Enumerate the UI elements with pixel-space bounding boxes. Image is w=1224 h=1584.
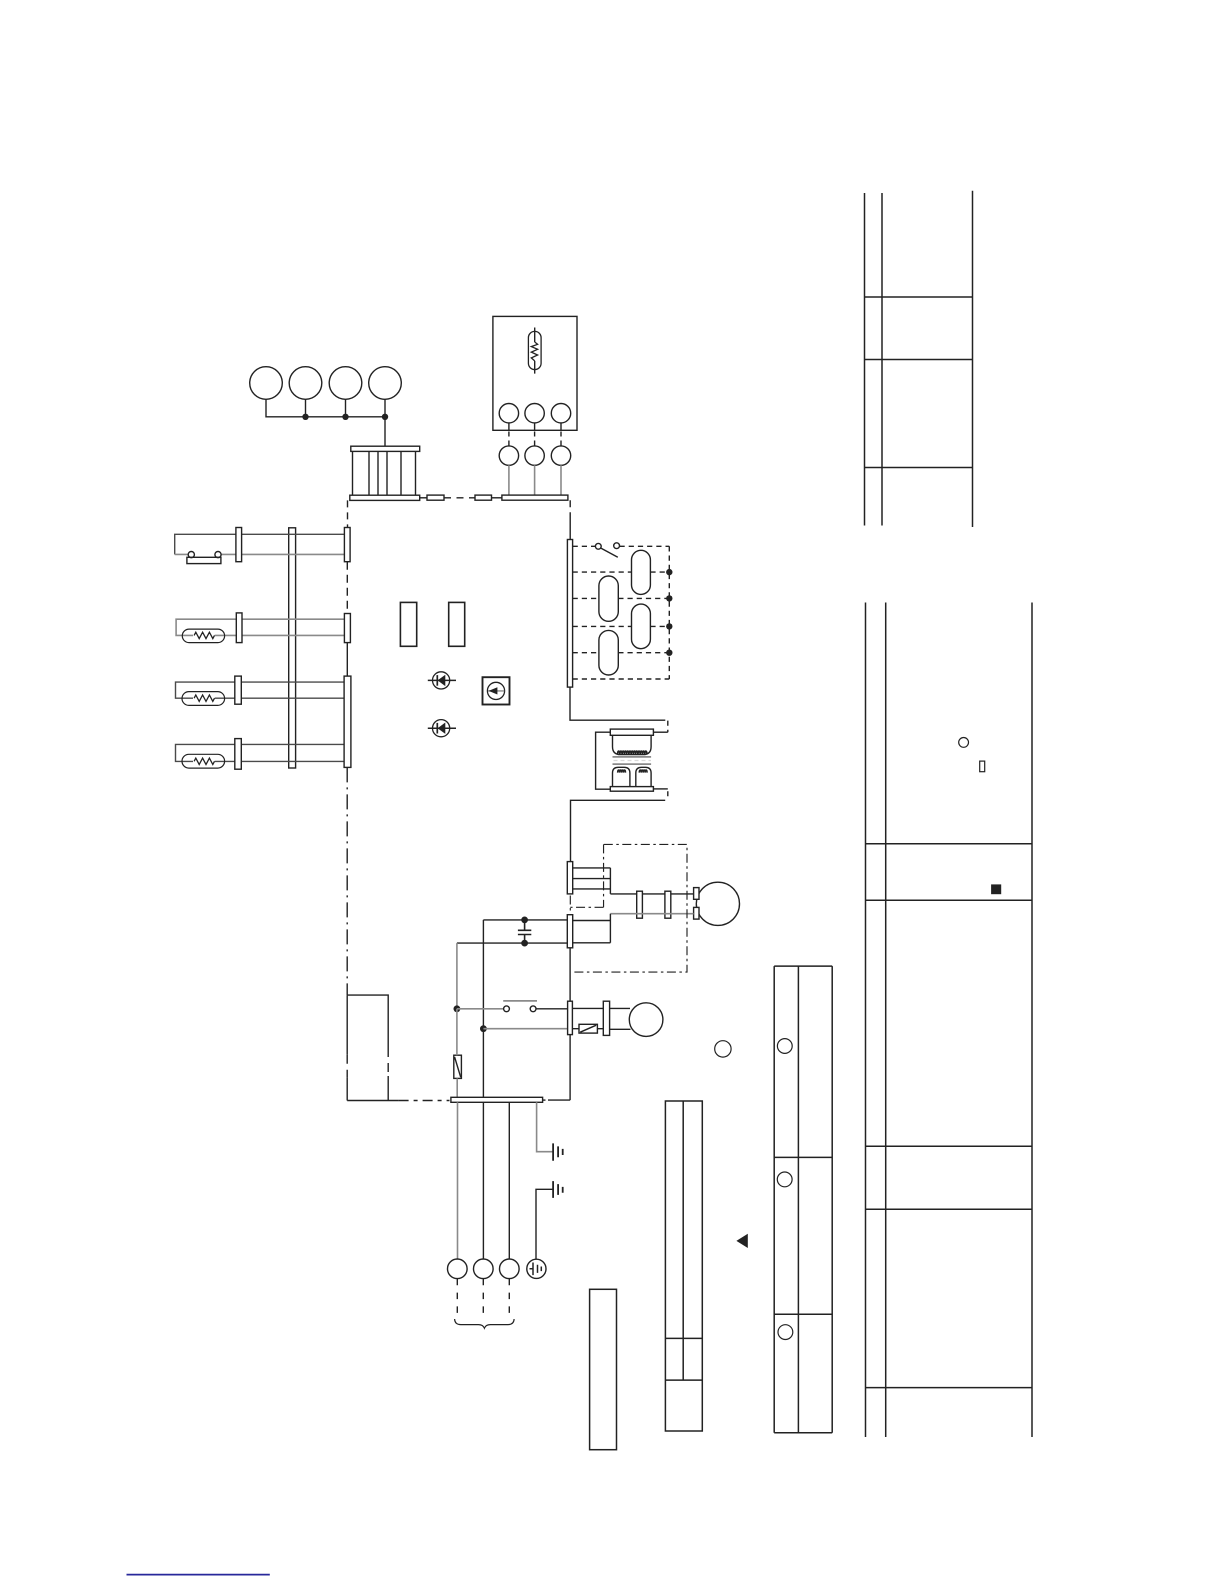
table C divider — [665, 1101, 702, 1380]
wire — [492, 497, 502, 499]
wire — [347, 1100, 398, 1102]
branch 4 heater element zigzag — [194, 758, 214, 764]
table C outline — [665, 1101, 702, 1431]
connector lug — [427, 495, 444, 500]
chassis outline box dashed edges — [347, 1048, 388, 1077]
node junction dot — [382, 414, 388, 420]
node junction dot — [302, 414, 308, 420]
standalone small circle — [715, 1041, 731, 1057]
wire gray pin leads — [509, 465, 561, 495]
inline connector CN-B — [637, 891, 643, 918]
wire main vertical — [548, 948, 570, 1100]
branch 4 heater circuit wires — [176, 744, 348, 761]
degauss transformer T2 top bar — [610, 729, 653, 735]
T2 secondary core left — [613, 767, 630, 786]
relay switch blade — [600, 548, 618, 557]
transformer T1 top terminal bar — [351, 446, 420, 451]
socket pin 3 — [551, 446, 570, 465]
terminal bar — [502, 495, 568, 500]
branch 3 connector left — [235, 676, 242, 704]
table A verticals — [865, 191, 973, 527]
connector CN-E — [568, 1001, 573, 1034]
table D outline — [774, 966, 832, 1433]
wire to ground G2 — [536, 1189, 553, 1259]
relay dashed right rail — [668, 546, 670, 679]
fuse F1 element — [528, 328, 541, 374]
wire lead 2 — [482, 1102, 484, 1259]
wire bar tick — [543, 1099, 546, 1101]
yoke connector CN-A — [567, 862, 572, 894]
relay switch terminal — [614, 543, 620, 549]
CRT pin top — [694, 888, 699, 900]
wire segment — [346, 643, 348, 677]
wire dashed lead 1 — [456, 1279, 458, 1313]
relay coil K1 — [632, 550, 651, 594]
relay contact dashed line 2 — [573, 571, 670, 573]
connector plug P3 — [329, 367, 362, 400]
chassis ground G1 — [553, 1143, 563, 1160]
node dot — [521, 940, 528, 947]
pointer triangle — [736, 1234, 747, 1248]
wire T2 bottom right — [653, 788, 667, 790]
node dot — [666, 650, 672, 656]
inline connector CN-C — [665, 891, 671, 918]
transformer T1 bottom terminal bar — [350, 495, 420, 500]
fuse box pin 2 — [525, 404, 544, 423]
branch 2 connector right — [344, 614, 350, 643]
table B filled square — [991, 884, 1001, 894]
T2 primary coil — [618, 751, 647, 754]
T2 core gap lines — [613, 757, 652, 764]
T2 secondary core right — [636, 767, 651, 786]
branch 3 heater element zigzag — [194, 695, 214, 701]
relay switch terminal — [595, 543, 601, 549]
T2 secondary coil left — [618, 770, 626, 773]
diode D2 — [428, 720, 456, 737]
bus bar connector — [289, 528, 296, 768]
connector plug P4 — [369, 367, 402, 400]
small parts rect A — [400, 602, 416, 646]
switch terminal — [530, 1006, 536, 1012]
tall rect E — [590, 1289, 617, 1449]
node dot — [480, 1025, 487, 1032]
relay coil K4 — [599, 630, 618, 675]
branch 1 thermostat contact bar — [187, 557, 221, 563]
mains pin 3 — [500, 1259, 520, 1279]
relay contact dashed line 3 — [573, 597, 670, 599]
relay contact dashed line 6 — [573, 678, 670, 680]
connector plug P1 — [250, 367, 283, 400]
table D circle 1 — [777, 1039, 792, 1054]
table B small circle — [959, 738, 969, 748]
relay coil K2 — [599, 576, 618, 621]
table B row lines — [866, 844, 1033, 1388]
branch 2 heater element R zigzag — [194, 632, 214, 638]
branch 3 heater outline — [182, 692, 225, 706]
fusible resistor FR1 — [454, 1055, 462, 1078]
wire T2 left loop — [596, 732, 611, 789]
wire dashed drop — [569, 500, 571, 518]
wire gray left drop — [456, 943, 458, 1009]
wire yoke return gray — [610, 913, 693, 915]
footer link line — [127, 1574, 270, 1576]
connector lug — [475, 495, 492, 500]
wire dash-dot drop — [346, 767, 348, 995]
wire plug bus — [266, 399, 385, 446]
motor M1 boxed — [483, 677, 510, 704]
wire yoke top — [610, 893, 693, 895]
relay terminal bar — [567, 540, 572, 688]
brace — [455, 1319, 514, 1328]
wire dash-dot — [399, 1100, 450, 1102]
wire dashed segment — [347, 500, 349, 527]
capacitor C1 — [518, 920, 531, 943]
table B small rect — [980, 761, 985, 772]
table D row lines — [774, 1157, 832, 1314]
wire lead 4 gray to ground — [537, 1102, 553, 1151]
fusible resistor FR2 — [579, 1024, 597, 1033]
yoke pin comb — [573, 868, 611, 894]
mains pin 1 — [448, 1259, 468, 1279]
wire yoke return — [573, 914, 611, 943]
wire dashed lead 3 — [508, 1279, 510, 1313]
deflection unit dash-dot boundary — [570, 844, 687, 972]
relay contact dashed line 5 — [573, 652, 670, 654]
branch 4 heater outline — [182, 754, 225, 768]
wire cap top — [483, 919, 567, 921]
socket pin 2 — [525, 446, 544, 465]
branch 1 thermostat terminal — [215, 552, 221, 558]
branch 1 connector right — [344, 528, 350, 562]
speaker/motor M2 — [629, 1003, 663, 1037]
small parts rect B — [449, 602, 465, 646]
table A row lines — [865, 297, 973, 468]
wire dashed link — [444, 497, 475, 499]
branch 1 connector left — [236, 528, 242, 562]
branch 3-4 tall connector right — [344, 676, 351, 767]
earth pin with ground mark — [527, 1259, 546, 1278]
branch 3 heater circuit wires — [176, 682, 348, 698]
wire switch to connector — [536, 1008, 568, 1010]
T2 core gap dashes — [614, 760, 652, 762]
wire — [569, 518, 571, 540]
branch 2 heater circuit wires — [176, 619, 347, 635]
wire — [572, 1008, 603, 1028]
mains pin 2 — [474, 1259, 494, 1279]
fuse box pin 3 — [551, 404, 570, 423]
relay coil K3 — [632, 604, 651, 649]
node dot — [666, 595, 672, 601]
relay contact dashed line 1 — [573, 545, 670, 547]
CRT bulb — [696, 882, 739, 925]
node dot — [666, 623, 672, 629]
wire relay to transformer — [570, 687, 665, 720]
branch 4 connector left — [235, 739, 242, 770]
table D circle 2 — [777, 1172, 792, 1187]
mains terminal bar — [451, 1097, 543, 1102]
fusible resistor FR2 stripe — [580, 1025, 596, 1032]
fuse box pin 1 — [499, 404, 518, 423]
wire pin stubs — [509, 423, 561, 430]
wire dashed corner — [667, 791, 669, 800]
wire dashed segment — [346, 562, 348, 614]
T2 upper core — [613, 735, 652, 754]
branch 2 heater outline — [182, 629, 224, 643]
wire lead 1 gray — [457, 1102, 459, 1259]
wire return — [571, 800, 666, 861]
diode D1 — [428, 672, 456, 689]
T2 secondary coil right — [639, 770, 647, 773]
connector CN-F — [603, 1001, 609, 1035]
table B verticals — [866, 603, 1033, 1438]
connector plug P2 — [289, 367, 322, 400]
socket pin 1 — [499, 446, 518, 465]
node dot — [454, 1005, 461, 1012]
wire dashed lead 2 — [482, 1279, 484, 1313]
chassis ground G2 — [553, 1181, 563, 1198]
relay contact dashed line 4 — [573, 625, 670, 627]
branch 1 heater circuit wires — [175, 534, 347, 554]
CRT pin bottom — [694, 907, 699, 919]
fusible resistor FR1 stripe — [455, 1057, 461, 1077]
wire cap bottom — [457, 942, 567, 944]
node dot — [666, 569, 672, 575]
switch terminal — [504, 1006, 510, 1012]
node dot — [521, 917, 528, 924]
earth pin ground glyph — [530, 1263, 542, 1276]
wire gray lower — [483, 1028, 567, 1030]
wire dashed corner — [667, 721, 669, 733]
chassis outline box — [347, 995, 388, 1100]
power switch SW1 bar — [503, 1000, 537, 1002]
wire main drop — [482, 920, 484, 1097]
yoke connector CN-D — [567, 915, 572, 948]
fuse box F1 — [493, 316, 577, 430]
wire dashed pins — [509, 432, 561, 446]
wire gray through FR1 — [456, 1009, 458, 1097]
wire lead 3 — [508, 1102, 510, 1259]
table D circle 3 — [778, 1325, 793, 1340]
wire gray to switch — [457, 1008, 504, 1010]
transformer T1 winding body — [353, 451, 416, 495]
degauss transformer T2 bottom bar — [610, 787, 653, 792]
node junction dot — [342, 414, 348, 420]
branch 1 thermostat terminal — [188, 552, 194, 558]
branch 2 connector left — [236, 613, 242, 643]
wire to speaker — [610, 1008, 631, 1029]
wire T2 top right — [653, 731, 667, 733]
